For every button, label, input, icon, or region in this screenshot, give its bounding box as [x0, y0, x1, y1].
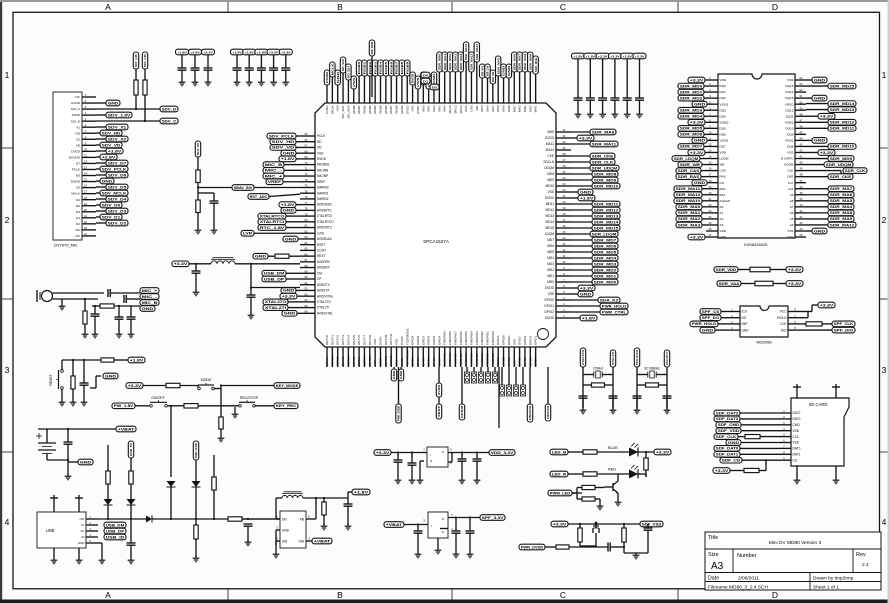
svg-text:A6: A6: [790, 211, 794, 215]
net label SDF_CMD: [716, 422, 741, 428]
wire: [639, 59, 641, 98]
wire: [374, 76, 376, 97]
capacitor C mic 1: [108, 289, 110, 297]
svg-text:GND: GND: [105, 374, 118, 378]
net label XTALRTCI: [664, 350, 669, 367]
capacitor C Y2 32.768KHz load 1: [633, 396, 642, 398]
ground: [195, 228, 202, 234]
wire: [96, 132, 100, 134]
wire: [730, 470, 744, 472]
svg-text:MD11: MD11: [546, 202, 554, 206]
wire: [417, 525, 419, 532]
svg-text:SD CARD: SD CARD: [809, 402, 828, 407]
wire: [715, 329, 728, 331]
wire: [107, 505, 109, 519]
net label XTALRTCO: [258, 213, 286, 219]
wire: [480, 367, 482, 372]
diode D2 zener: [127, 499, 136, 505]
svg-text:TEST: TEST: [437, 406, 441, 418]
IC U1 top pin MA10: [448, 97, 452, 113]
svg-text:RSET: RSET: [317, 243, 326, 247]
svg-text:DVDD: DVDD: [545, 136, 555, 140]
IC U2 right pin 30 A4: [790, 221, 806, 227]
wire: [236, 55, 238, 68]
IC U1 bottom pin VSS: [395, 339, 399, 353]
wire: [96, 198, 106, 200]
svg-text:MA12: MA12: [459, 105, 463, 113]
bottom pin label GPIO3: [523, 353, 527, 367]
junction: [247, 518, 249, 520]
net label VSS: [426, 76, 431, 89]
svg-text:+1.8V: +1.8V: [573, 54, 583, 58]
net label SDR_MA4: [828, 204, 854, 210]
svg-text:DGTV1: DGTV1: [330, 335, 334, 345]
svg-text:+3.3V: +3.3V: [203, 50, 213, 54]
wire: [406, 76, 408, 97]
wire: [197, 183, 199, 201]
svg-text:DGTV7: DGTV7: [362, 356, 366, 366]
net label +1.8V: [578, 195, 595, 201]
wire XTAL27O: [582, 367, 584, 408]
connector J1 pin 8 X2: [76, 135, 96, 141]
wire: [508, 367, 510, 385]
svg-text:SPCA1527A: SPCA1527A: [423, 239, 450, 244]
svg-text:CVDD: CVDD: [416, 105, 420, 114]
wire: [297, 312, 300, 314]
ground: [59, 400, 66, 406]
zone tick top: [451, 2, 453, 12]
wire: [213, 490, 215, 519]
svg-text:AVDDTX: AVDDTX: [317, 283, 331, 287]
svg-text:FWGPIO9: FWGPIO9: [443, 353, 447, 366]
resistor R hold pulldown: [194, 525, 198, 539]
svg-text:RGB7: RGB7: [389, 105, 393, 114]
svg-text:4: 4: [5, 517, 10, 527]
svg-text:VSS: VSS: [373, 360, 377, 366]
IC U1 top pin SIO_SDA: [346, 97, 350, 119]
svg-text:27MHz: 27MHz: [593, 367, 604, 371]
svg-text:MD12: MD12: [545, 208, 554, 212]
junction: [144, 120, 146, 122]
IC U1 right pin 18 MD13: [545, 212, 571, 218]
header J10: [513, 385, 518, 396]
title block row line 3: [705, 581, 881, 583]
wire: [96, 174, 106, 176]
svg-text:DQ13: DQ13: [785, 96, 793, 100]
svg-text:DGTV11: DGTV11: [389, 355, 393, 366]
header J7: [492, 372, 497, 383]
wire: [636, 474, 646, 477]
svg-text:GND: GND: [580, 190, 593, 194]
ground: [59, 304, 66, 310]
resistor R SD CLK: [745, 435, 760, 439]
wire: [469, 518, 471, 532]
IC U1 left pin 89 CM: [300, 269, 322, 275]
net label +3.3V: [818, 150, 835, 156]
wire: [718, 323, 728, 325]
svg-text:GPIOB: GPIOB: [502, 357, 506, 366]
net label GPIO8: [459, 404, 464, 420]
IC U2 left pin 16 CAS: [706, 167, 726, 173]
svg-text:SDF_VSS: SDF_VSS: [642, 522, 662, 526]
net label SDV_VD: [270, 145, 296, 151]
ground: [92, 332, 99, 338]
svg-text:VSS: VSS: [793, 441, 799, 445]
net label SDR_WE: [678, 162, 702, 168]
net label XTAL27I: [610, 350, 615, 367]
resistor R mode pulldown: [219, 417, 223, 429]
svg-text:A2: A2: [720, 217, 724, 221]
svg-text:+1.8V: +1.8V: [586, 54, 596, 58]
connector J1 pin 15 DGND: [71, 178, 96, 184]
svg-text:DGTV8: DGTV8: [368, 335, 372, 345]
net label MIC_+: [263, 173, 284, 179]
svg-text:VSS: VSS: [512, 339, 516, 345]
wire: [487, 78, 489, 97]
net label RGB7: [394, 60, 399, 76]
svg-text:GND: GND: [814, 139, 827, 143]
svg-text:SIO_SCK: SIO_SCK: [341, 106, 345, 119]
svg-text:XTALRTCI: XTALRTCI: [317, 214, 332, 218]
wire: [250, 264, 252, 288]
IC U1 right pin 19 MD12: [545, 206, 571, 212]
svg-text:+3.3V: +3.3V: [174, 262, 189, 266]
net label SDR_MA6: [828, 192, 854, 198]
zone tick left: [2, 298, 13, 300]
wire: [358, 76, 360, 97]
svg-text:GPIO4: GPIO4: [437, 335, 441, 345]
wire: [92, 305, 100, 307]
bottom pin label FWGPIO0: [491, 353, 495, 367]
svg-text:SDR_MA3: SDR_MA3: [678, 223, 701, 227]
svg-text:SARIN2: SARIN2: [317, 197, 329, 201]
svg-text:PCLK: PCLK: [317, 134, 326, 138]
wire: [738, 436, 745, 438]
svg-text:SDR_MAB: SDR_MAB: [534, 57, 538, 72]
wire: [605, 384, 614, 386]
wire: [213, 193, 215, 201]
wire CLK jog: [840, 171, 842, 174]
sheet border shadow left: [0, 0, 2, 603]
net label GPIO3: [545, 404, 550, 421]
net label D2: [430, 84, 439, 90]
junction: [476, 451, 478, 453]
svg-text:N.C/RFU: N.C/RFU: [781, 157, 794, 161]
wire gpio run: [498, 367, 500, 428]
svg-text:USB_DP: USB_DP: [106, 529, 126, 533]
IC U1 top pin MAC: [512, 97, 516, 112]
wire: [626, 100, 628, 112]
net label MIC_B: [263, 162, 284, 168]
capacitor C mic 3: [91, 314, 100, 316]
net label GND: [578, 189, 593, 195]
wire: [296, 209, 300, 211]
connector J2 SD CARD body: [791, 398, 849, 466]
svg-text:GND: GND: [502, 64, 506, 76]
wire: [497, 76, 499, 97]
IC U1 top pin RAS: [464, 97, 468, 112]
svg-text:MA0: MA0: [421, 105, 425, 112]
wire: [571, 257, 592, 259]
wire: [411, 465, 413, 478]
net label GND: [506, 64, 511, 78]
connector J13 USB pin 1 +5V: [79, 515, 98, 521]
wire: [96, 216, 100, 218]
svg-text:CM: CM: [317, 271, 322, 275]
junction: [195, 518, 197, 520]
svg-text:SDR_MA2: SDR_MA2: [678, 217, 701, 221]
net label SDR_MD4: [592, 255, 618, 261]
wire: [796, 466, 798, 478]
IC U1 left pin 94 XTAL27O: [300, 298, 331, 304]
zone tick left: [2, 147, 13, 149]
wire: [610, 546, 624, 548]
wire XTALRTCI: [666, 367, 668, 408]
wire: [94, 316, 96, 332]
junction: [623, 523, 625, 525]
net label SDR_CLK: [590, 159, 615, 165]
svg-text:VSSQ: VSSQ: [785, 139, 794, 143]
resistor R divider top: [196, 170, 200, 183]
svg-text:UDQM: UDQM: [544, 166, 554, 170]
wire: [284, 175, 300, 177]
wire: [702, 218, 706, 220]
wire: [286, 227, 300, 229]
IC U3 right pin 7 /HOLD: [777, 314, 800, 320]
crystal Y1 27MHz: [594, 370, 602, 378]
net label SPF_CS: [700, 309, 721, 315]
wire: [614, 59, 616, 98]
resistor R red led: [583, 472, 597, 476]
svg-text:RGB6: RGB6: [384, 105, 388, 114]
wire: [740, 412, 780, 414]
wire: [508, 78, 510, 97]
net label SDV_X1: [106, 124, 128, 130]
IC U2 right pin 32 A6: [790, 209, 806, 215]
bottom pin label GPIOB: [502, 353, 506, 367]
svg-text:SDR_MD15: SDR_MD15: [830, 84, 855, 88]
svg-text:FWGPIO1: FWGPIO1: [486, 331, 490, 345]
svg-text:LED_R: LED_R: [552, 472, 567, 476]
net label SDR_MA10: [463, 42, 468, 62]
connector J1 pin 24 NC: [76, 232, 96, 238]
wire: [96, 144, 100, 146]
net label +3.3V: [577, 135, 594, 141]
net label SPF_3.3V: [480, 515, 505, 521]
IC U2 left pin 17 RAS: [706, 173, 726, 179]
svg-text:HD: HD: [76, 131, 81, 135]
wire: [96, 204, 100, 206]
svg-text:MD9: MD9: [547, 178, 554, 182]
connector J13 USB pin 2 D-: [81, 521, 98, 527]
svg-text:SDR_MA3: SDR_MA3: [454, 53, 458, 70]
capacitor C 3.3V filter: [192, 271, 201, 273]
net label RGB4: [378, 60, 383, 76]
junction: [135, 108, 137, 110]
ground: [65, 474, 72, 480]
capacitor C Y1 27MHz load 2: [609, 396, 618, 398]
bottom pin label GPIOC: [507, 353, 511, 367]
wire: [702, 200, 706, 202]
svg-text:SDR_MA0: SDR_MA0: [678, 205, 701, 209]
svg-text:RESET: RESET: [49, 374, 53, 385]
bottom pin label VSS: [373, 353, 377, 367]
sheet border shadow top: [0, 0, 890, 2]
wire: [380, 76, 382, 97]
svg-text:G5: G5: [76, 186, 80, 190]
wire: [624, 552, 648, 554]
crystal Y2 32.768KHz: [648, 370, 656, 378]
svg-text:XTALRTCO: XTALRTCO: [260, 214, 285, 218]
capacitor C: [269, 68, 278, 70]
svg-text:FWGPIO5: FWGPIO5: [464, 353, 468, 366]
bottom pin label FWGPIO1: [486, 353, 490, 367]
net label SDR_MA9: [528, 52, 533, 72]
svg-text:VDD: VDD: [720, 151, 727, 155]
svg-text:VREF: VREF: [268, 180, 282, 184]
capacitor C mic 4: [115, 317, 124, 319]
IC U1 left pin 88 AVSSRX: [300, 264, 331, 270]
svg-text:WE: WE: [475, 106, 479, 111]
svg-text:RGB8: RGB8: [395, 105, 399, 114]
svg-text:VSS: VSS: [373, 339, 377, 345]
IC U2 left pin 25 A3: [706, 221, 724, 227]
net label USB_DP: [104, 528, 126, 534]
svg-text:CKE: CKE: [547, 154, 554, 158]
net label PWR_HOLD: [193, 441, 198, 460]
wire: [568, 473, 583, 475]
net label +1.8V: [176, 49, 189, 55]
IC U1 top pin SIO_SCK: [341, 97, 345, 119]
capacitor C: [598, 98, 607, 100]
net label GND: [398, 369, 403, 381]
ground: [218, 436, 225, 442]
capacitor C reset: [80, 383, 89, 385]
wire: [144, 95, 146, 121]
wire +VBAT rail: [38, 428, 116, 430]
connector J13 USB pin 3 D+: [81, 527, 98, 533]
svg-text:3: 3: [882, 365, 887, 375]
svg-text:SDV_VD: SDV_VD: [102, 143, 121, 147]
wire emitter: [617, 493, 619, 500]
ground: [232, 412, 239, 418]
IC U1 right pin 28 CKE: [547, 152, 571, 158]
wire: [571, 197, 578, 199]
svg-text:VSS: VSS: [787, 229, 793, 233]
ground: [417, 478, 424, 484]
IC U1 left pin 84 RSET: [300, 241, 326, 247]
capacitor C ldo2 out 2: [466, 531, 475, 533]
wire ldo out: [448, 452, 489, 454]
wire: [195, 460, 197, 481]
svg-text:SDR_MD2: SDR_MD2: [680, 96, 703, 100]
wire: [515, 367, 517, 385]
wire: [659, 384, 668, 386]
net label GND: [812, 95, 827, 101]
net label GND: [282, 311, 297, 317]
svg-text:FWGPIO1: FWGPIO1: [486, 353, 490, 366]
svg-text:XTAL27I: XTAL27I: [317, 306, 329, 310]
net label SDR_MD1: [678, 89, 704, 95]
IC U1 SPCA1527A body: [315, 103, 556, 347]
net label SDR_MD9: [828, 156, 854, 162]
IC U1 top pin RGB7: [389, 97, 393, 114]
svg-text:DVDD: DVDD: [545, 286, 555, 290]
net label XTAL27I: [263, 305, 288, 311]
transistor Q1: [613, 481, 618, 493]
svg-text:MD0: MD0: [547, 280, 554, 284]
wire: [513, 72, 515, 97]
svg-text:SDR_UDQM: SDR_UDQM: [826, 163, 852, 167]
IC U2 right pin 52 DQ14: [785, 88, 806, 94]
IC U2 left pin 1 VDD: [706, 76, 727, 82]
svg-text:DGTVB: DGTVB: [384, 335, 388, 345]
svg-text:GND: GND: [108, 101, 120, 105]
net label PWR_DVDD: [369, 40, 374, 56]
svg-text:MA11: MA11: [546, 142, 554, 146]
IC U2 left pin 13 VDD: [706, 149, 727, 155]
IC U2 right pin 39 CLK: [787, 167, 806, 173]
net label +3.3V: [172, 261, 189, 267]
wire SARIN1: [269, 194, 300, 196]
wire battery bottom: [47, 454, 68, 461]
IC U1 right pin 7 MD0: [547, 278, 571, 284]
svg-text:D: D: [772, 590, 778, 600]
bottom pin label FWGPIO7: [453, 353, 457, 367]
wire: [96, 156, 100, 158]
IC U1 right pin 32 MA9: [547, 128, 571, 134]
svg-text:SDR_MA6: SDR_MA6: [512, 53, 516, 70]
header J5: [478, 372, 483, 383]
svg-text:VDD: VDD: [720, 235, 727, 239]
svg-text:FWGPIO7: FWGPIO7: [453, 331, 457, 345]
capacitor C: [233, 68, 242, 70]
IC U1 right pin 11 MD4: [547, 254, 571, 260]
svg-text:+5V: +5V: [79, 517, 84, 521]
net label SDR_MA7: [828, 186, 854, 192]
ground: [474, 478, 481, 484]
wire: [738, 269, 750, 271]
IC U1 left pin 67 VD: [300, 144, 322, 150]
wire: [107, 445, 109, 471]
net label SDR_MD11: [828, 126, 856, 132]
wire: [396, 76, 398, 97]
wire: [806, 224, 828, 226]
svg-text:B: B: [337, 2, 343, 12]
IC U1 bottom pin DGTV1: [330, 335, 334, 353]
wire: [397, 453, 399, 461]
wire: [347, 506, 349, 524]
svg-text:DGTV3: DGTV3: [341, 335, 345, 345]
wire: [323, 498, 325, 502]
svg-text:SDR_MD4: SDR_MD4: [680, 115, 703, 119]
connector J1 DV7670_MN body: [53, 92, 82, 240]
net label SDR_LDQM: [590, 231, 618, 237]
zone tick right: [880, 451, 888, 453]
net label SDR_MA13: [469, 52, 474, 72]
svg-text:DQ3: DQ3: [720, 108, 727, 112]
svg-text:VSS: VSS: [395, 360, 399, 366]
wire: [284, 169, 300, 171]
IC U2 left pin 7 DQ4: [706, 112, 726, 118]
svg-text:UDQM: UDQM: [784, 163, 794, 167]
net label GND: [812, 228, 827, 234]
net label PWR_HOLD: [600, 303, 628, 309]
IC U1 top pin MAB: [507, 97, 511, 112]
svg-text:D+: D+: [81, 529, 85, 533]
wire: [144, 69, 146, 80]
IC U1 bottom pin GPIO9: [416, 335, 420, 353]
